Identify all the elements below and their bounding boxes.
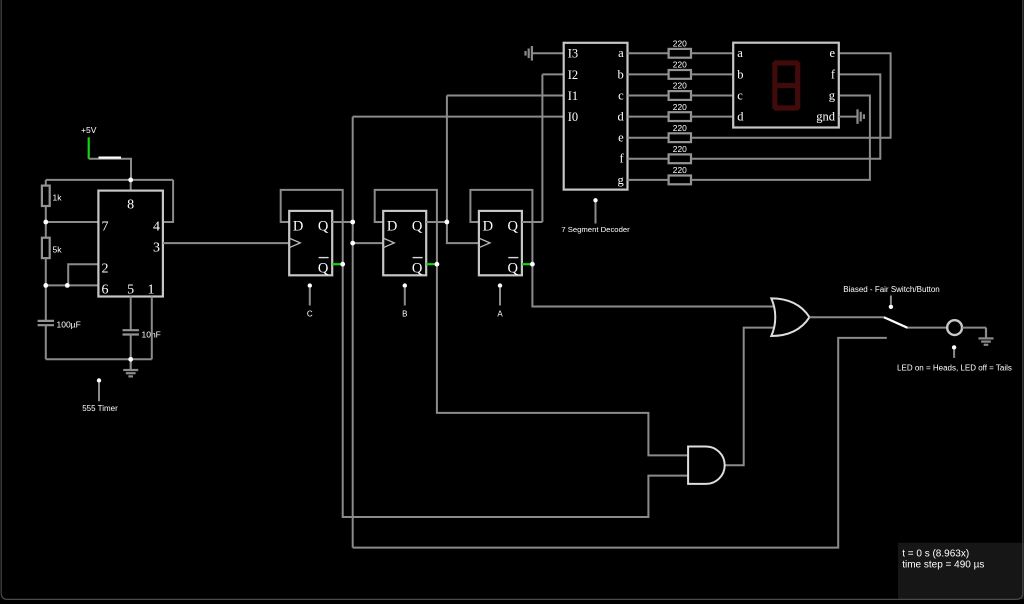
FF B feedback loop wire	[375, 190, 437, 264]
ground at I3	[532, 52, 564, 54]
svg-text:LED on = Heads, LED off = Tail: LED on = Heads, LED off = Tails	[897, 364, 1012, 373]
flip-flop B body	[383, 211, 426, 275]
resistor R3 220	[669, 49, 691, 58]
svg-text:g: g	[617, 173, 624, 187]
FF B clock triangle	[383, 238, 394, 248]
node: pin7 junction dot	[43, 220, 48, 225]
highlighted wire segment	[99, 157, 122, 159]
svg-text:d: d	[737, 110, 744, 124]
svg-text:3: 3	[153, 241, 160, 256]
wire R3 to display a	[691, 52, 733, 54]
ground symbol	[130, 359, 132, 370]
svg-text:Biased - Fair Switch/Button: Biased - Fair Switch/Button	[843, 285, 939, 294]
wire B.Q up to decoder I1	[446, 96, 448, 223]
svg-text:Q: Q	[412, 219, 423, 235]
svg-text:220: 220	[673, 60, 687, 70]
wire C.Qbar down to AND gate lower input	[343, 264, 688, 517]
svg-text:220: 220	[673, 144, 687, 154]
LED D1	[947, 320, 962, 335]
svg-text:a: a	[618, 46, 624, 60]
node: C.Q junction dot	[350, 220, 355, 225]
svg-text:b: b	[617, 67, 623, 81]
svg-text:220: 220	[673, 39, 687, 49]
svg-text:5k: 5k	[53, 245, 63, 255]
resistor R7 220	[669, 133, 691, 142]
svg-text:220: 220	[673, 165, 687, 175]
wire left down to C1	[45, 285, 47, 320]
annotation: 7 Segment Decoder label pointer	[593, 198, 597, 202]
svg-text:+5V: +5V	[81, 125, 97, 135]
wire decoder I2 input	[542, 73, 563, 75]
svg-text:g: g	[829, 88, 836, 102]
FF C clock triangle	[289, 238, 300, 248]
wire pin 4 to Vcc	[163, 180, 173, 222]
wire decoder d to R6	[628, 116, 669, 118]
FF A clock triangle	[479, 238, 490, 248]
svg-text:a: a	[737, 46, 743, 60]
FF A feedback loop wire	[470, 190, 532, 264]
FF A Q output stub	[522, 221, 543, 223]
wire C.Q to FF B clock	[353, 242, 384, 244]
resistor R9 220	[669, 176, 691, 185]
wire C.Q bottom route to switch lower throw	[353, 338, 887, 548]
FF A Qbar output stub (green)	[522, 263, 533, 265]
Vcc rail wire	[46, 179, 173, 181]
wire 555 pin3 output to FF C clock	[163, 242, 289, 244]
svg-text:D: D	[483, 219, 493, 235]
wire R5 to display c	[691, 95, 733, 97]
FF B Q output stub	[426, 221, 447, 223]
wire R4 to display b	[691, 73, 733, 75]
wire decoder b to R4	[628, 73, 669, 75]
node: pin6 junction dot	[43, 283, 48, 288]
resistor R5 220	[669, 91, 691, 100]
555 chip body U1	[98, 191, 162, 297]
svg-text:1k: 1k	[53, 193, 63, 203]
resistor R1 1k	[45, 180, 47, 186]
node: Vcc junction dot	[128, 178, 133, 183]
wire AND output up to OR lower input	[725, 328, 774, 466]
svg-text:555 Timer: 555 Timer	[82, 404, 118, 413]
svg-text:D: D	[387, 219, 397, 235]
resistor R6 220	[669, 112, 691, 121]
svg-text:220: 220	[673, 123, 687, 133]
ground at display gnd pin	[839, 116, 858, 118]
svg-text:5: 5	[127, 283, 134, 298]
svg-text:Q: Q	[508, 261, 519, 277]
info panel	[898, 543, 1024, 599]
wire to pin 7	[46, 221, 99, 223]
svg-text:6: 6	[102, 283, 109, 298]
svg-text:1: 1	[148, 283, 155, 298]
wire R8 to display f (right side route)	[691, 74, 880, 158]
node: B.Qbar junction dot	[435, 262, 440, 267]
svg-text:2: 2	[102, 262, 109, 277]
wire C.Q up to decoder I0 and down	[352, 117, 354, 548]
svg-text:I1: I1	[568, 89, 578, 103]
wire decoder a to R3	[628, 52, 669, 54]
wire LED to ground	[962, 327, 986, 329]
wire A.Q up to decoder I2	[541, 74, 543, 222]
svg-text:220: 220	[673, 102, 687, 112]
wire pin 2 loop	[68, 264, 98, 285]
resistor R2 5k	[45, 222, 47, 238]
wire R9 to display g (right side route)	[691, 96, 870, 180]
svg-text:100µF: 100µF	[57, 320, 81, 330]
seven segment digit 8 (all segments dark)	[775, 63, 798, 108]
node: A.Qbar junction dot	[530, 262, 535, 267]
switch SW1 (SPDT, lever on upper throw)	[884, 317, 908, 328]
capacitor C1 100uF	[38, 320, 54, 322]
AND gate U4	[688, 447, 725, 484]
svg-text:B: B	[402, 310, 407, 319]
svg-text:7 Segment Decoder: 7 Segment Decoder	[561, 225, 630, 234]
wire decoder e to R7	[628, 137, 669, 139]
FF C feedback loop wire	[281, 190, 343, 264]
wire decoder I0 input	[353, 116, 564, 118]
svg-text:4: 4	[153, 220, 160, 235]
svg-text:Q: Q	[318, 261, 329, 277]
flip-flop C body	[289, 211, 332, 275]
resistor R4 220	[669, 70, 691, 79]
annotation: A label pointer	[498, 283, 502, 287]
wire B.Q down to FF A clock	[447, 222, 479, 243]
annotation: C label pointer	[308, 283, 312, 287]
wire pin 5 down	[130, 297, 132, 331]
node: C.Qbar junction dot	[340, 262, 345, 267]
svg-text:D: D	[293, 219, 303, 235]
ground rail wire	[46, 358, 152, 360]
display body	[733, 43, 839, 128]
wire pin 8 stub	[130, 180, 132, 191]
wire OR output to switch	[810, 316, 884, 318]
svg-text:b: b	[737, 67, 743, 81]
wire R6 to display d	[691, 116, 733, 118]
svg-text:A: A	[497, 310, 503, 319]
svg-text:e: e	[829, 46, 835, 60]
svg-text:c: c	[618, 88, 624, 102]
svg-text:Q: Q	[318, 219, 329, 235]
svg-text:C: C	[307, 310, 313, 319]
ground at LED	[985, 328, 987, 339]
svg-text:d: d	[617, 110, 624, 124]
wire switch common to LED	[908, 327, 947, 329]
wire R7 to display e (right side route)	[691, 53, 891, 137]
svg-text:8: 8	[127, 198, 134, 213]
decoder body	[564, 43, 628, 190]
FF C Q output stub	[332, 221, 353, 223]
svg-text:220: 220	[673, 81, 687, 91]
annotation: 555 Timer label pointer	[97, 378, 101, 382]
svg-text:I2: I2	[568, 68, 578, 82]
flip-flop A body	[479, 211, 522, 275]
wire decoder f to R8	[628, 158, 669, 160]
wire C1 to ground rail	[45, 325, 47, 359]
wire decoder c to R5	[628, 95, 669, 97]
svg-text:I0: I0	[568, 110, 578, 124]
node: pin2 tap junction dot	[65, 283, 70, 288]
node: ground junction dot	[128, 357, 133, 362]
wire B.Qbar down to AND gate upper input	[437, 264, 688, 455]
wire A.Qbar down to OR gate upper input	[532, 264, 773, 306]
resistor R8 220	[669, 154, 691, 163]
svg-text:time step = 490 µs: time step = 490 µs	[902, 560, 984, 571]
svg-text:e: e	[618, 131, 624, 145]
node: C.Q to B clock junction dot	[350, 241, 355, 246]
svg-text:t = 0 s (8.963x): t = 0 s (8.963x)	[902, 548, 969, 559]
wire to pin 6	[46, 284, 99, 286]
FF C Qbar output stub (green)	[332, 263, 343, 265]
+5V source lead (green)	[88, 137, 90, 159]
annotation: B label pointer	[403, 283, 407, 287]
node: B.Q junction dot	[445, 220, 450, 225]
svg-text:Q: Q	[508, 219, 519, 235]
wire pin 1 down	[151, 297, 153, 360]
capacitor C2 10nF	[123, 329, 139, 331]
wire C2 to ground rail	[130, 335, 132, 360]
OR gate U3	[771, 298, 809, 336]
annotation: LED label pointer	[952, 345, 956, 349]
wire decoder g to R9	[628, 179, 669, 181]
svg-text:c: c	[737, 88, 743, 102]
wire from +5V to corner	[89, 159, 131, 180]
svg-text:Q: Q	[412, 261, 423, 277]
wire decoder I1 input	[447, 95, 564, 97]
svg-text:7: 7	[102, 220, 109, 235]
svg-text:gnd: gnd	[816, 110, 836, 124]
svg-text:I3: I3	[568, 47, 578, 61]
FF B Qbar output stub (green)	[426, 263, 437, 265]
